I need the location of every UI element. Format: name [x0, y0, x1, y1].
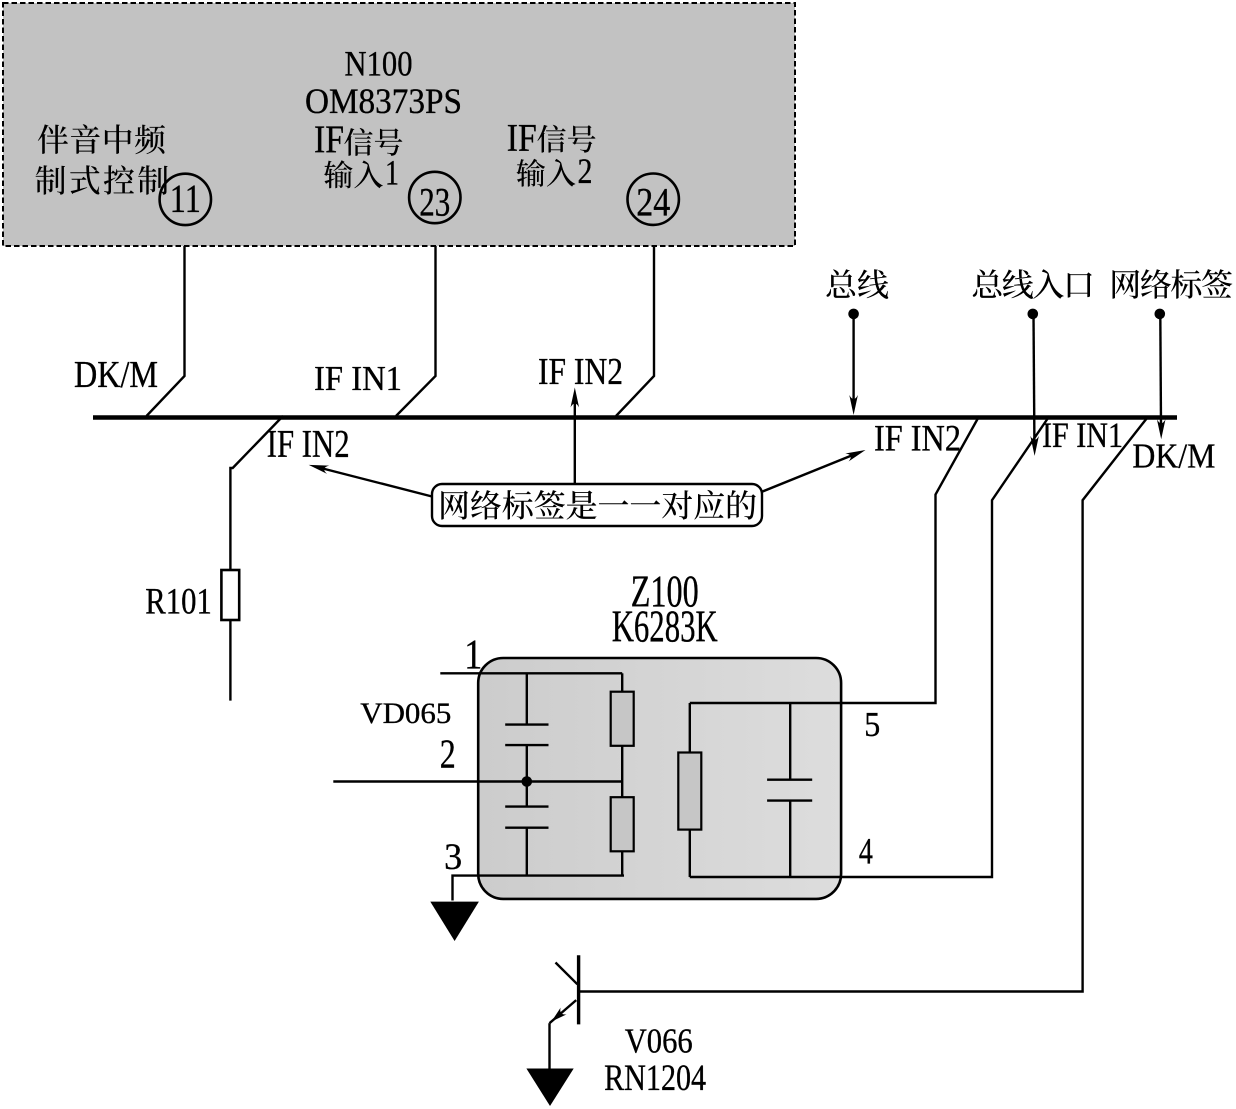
svg-text:IF IN1: IF IN1 [1042, 415, 1123, 455]
svg-text:OM8373PS: OM8373PS [305, 81, 462, 121]
svg-text:2: 2 [578, 151, 593, 191]
svg-text:IF IN2: IF IN2 [874, 418, 961, 459]
svg-text:5: 5 [864, 705, 880, 744]
svg-text:3: 3 [444, 837, 462, 878]
svg-text:V066: V066 [625, 1021, 693, 1060]
svg-text:R101: R101 [145, 582, 212, 623]
svg-text:11: 11 [170, 176, 201, 221]
svg-text:IF: IF [507, 117, 537, 160]
svg-text:2: 2 [440, 730, 456, 776]
svg-text:VD065: VD065 [360, 697, 451, 730]
svg-text:IF IN1: IF IN1 [314, 359, 402, 398]
svg-text:IF: IF [314, 118, 344, 161]
svg-text:DK/M: DK/M [1132, 437, 1215, 476]
svg-text:24: 24 [636, 179, 670, 224]
svg-text:23: 23 [419, 179, 450, 224]
svg-text:RN1204: RN1204 [604, 1058, 706, 1099]
svg-text:1: 1 [385, 153, 399, 193]
svg-text:1: 1 [464, 632, 482, 678]
svg-text:IF IN2: IF IN2 [538, 351, 623, 393]
svg-text:DK/M: DK/M [74, 354, 158, 396]
svg-text:K6283K: K6283K [612, 602, 718, 652]
svg-text:N100: N100 [345, 44, 413, 84]
svg-text:IF IN2: IF IN2 [267, 423, 350, 466]
svg-text:4: 4 [859, 831, 873, 872]
